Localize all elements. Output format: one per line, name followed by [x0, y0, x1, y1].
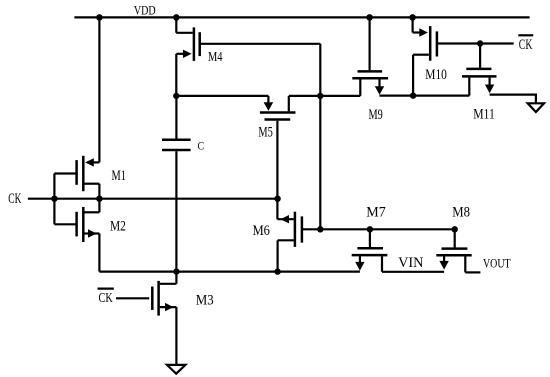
svg-text:VOUT: VOUT	[483, 255, 511, 270]
svg-text:M10: M10	[425, 67, 447, 83]
svg-text:M6: M6	[253, 223, 271, 239]
svg-text:M8: M8	[452, 205, 470, 221]
wire gate bus M6 M7 M8	[320, 228, 454, 230]
junction dot VDD-M1	[96, 14, 103, 21]
ground right	[528, 103, 544, 112]
junction dot CK gates	[51, 196, 57, 202]
svg-text:CK: CK	[8, 191, 21, 207]
junction dot bottom rail M3	[173, 268, 179, 274]
svg-text:CK: CK	[99, 291, 113, 306]
junction dot node X gate bus	[317, 226, 323, 232]
junction dot M11 gate	[477, 40, 483, 46]
svg-text:M4: M4	[208, 50, 223, 65]
transistor M11	[462, 69, 497, 96]
junction dot node B	[173, 93, 179, 99]
svg-text:M1: M1	[112, 168, 126, 184]
wire VDD to M9 gate	[369, 17, 371, 70]
overline CK bar at M3	[98, 288, 114, 290]
transistor M1	[54, 156, 99, 199]
svg-text:VIN: VIN	[398, 255, 424, 271]
wire M5 gate vertical to node A and M6 drain	[276, 121, 278, 220]
wire M3 drain drop	[175, 272, 177, 284]
junction dot VDD-M10	[409, 14, 416, 21]
wire bottom rail	[99, 271, 360, 273]
transistor M3	[116, 281, 176, 316]
junction dot node X top	[317, 93, 323, 99]
ground left	[167, 365, 185, 374]
transistor M4	[176, 27, 199, 61]
svg-text:M2: M2	[110, 219, 126, 235]
overline CK bar top right	[518, 34, 533, 36]
junction dot VDD-M4	[173, 14, 180, 21]
wire VDD to M4 drain	[175, 17, 177, 32]
wire M4 gate to node X	[201, 43, 320, 45]
wire M9 to M11	[380, 94, 470, 96]
wire M11 to ground	[490, 95, 536, 104]
wire VDD to M1 drain	[98, 17, 100, 162]
wire CK node to node A	[54, 198, 277, 200]
svg-text:CK: CK	[519, 37, 533, 53]
svg-text:M7: M7	[366, 205, 386, 221]
transistor M6	[277, 212, 320, 272]
junction dot VDD-M9	[366, 14, 373, 21]
svg-text:VDD: VDD	[134, 3, 156, 18]
svg-text:M11: M11	[473, 107, 495, 123]
wire CKbar to M11 gate	[479, 44, 481, 68]
wire VIN segment M7 to M8	[382, 271, 444, 273]
junction dot node A	[274, 196, 280, 202]
svg-text:M3: M3	[196, 293, 214, 309]
wire M3 source to ground	[175, 307, 177, 364]
capacitor C	[162, 96, 191, 272]
transistor M5	[260, 96, 321, 120]
net VDD rail wire	[74, 16, 529, 18]
wire node B to M5 drain	[176, 95, 268, 97]
junction dot M7 gate	[367, 226, 373, 232]
junction dot M1-M2 node	[96, 196, 102, 202]
transistor M10	[413, 17, 437, 95]
junction dot M8 gate	[452, 226, 458, 232]
wire node X vertical	[319, 44, 321, 230]
transistor M8	[436, 229, 480, 272]
wire M10 gate to CKbar	[438, 42, 514, 44]
svg-text:C: C	[198, 140, 205, 152]
transistor M9	[352, 71, 388, 96]
transistor M2	[54, 199, 99, 272]
transistor M7	[352, 229, 388, 271]
junction dot M10 source	[410, 92, 416, 98]
wire CK input	[28, 198, 55, 200]
wire M1 M2 gates vertical	[53, 174, 55, 225]
svg-text:M5: M5	[258, 124, 272, 140]
svg-text:M9: M9	[369, 107, 383, 123]
wire M4 source to node B	[175, 54, 177, 96]
wire node B to M9	[320, 95, 360, 97]
junction dot bottom rail M6	[274, 268, 280, 274]
